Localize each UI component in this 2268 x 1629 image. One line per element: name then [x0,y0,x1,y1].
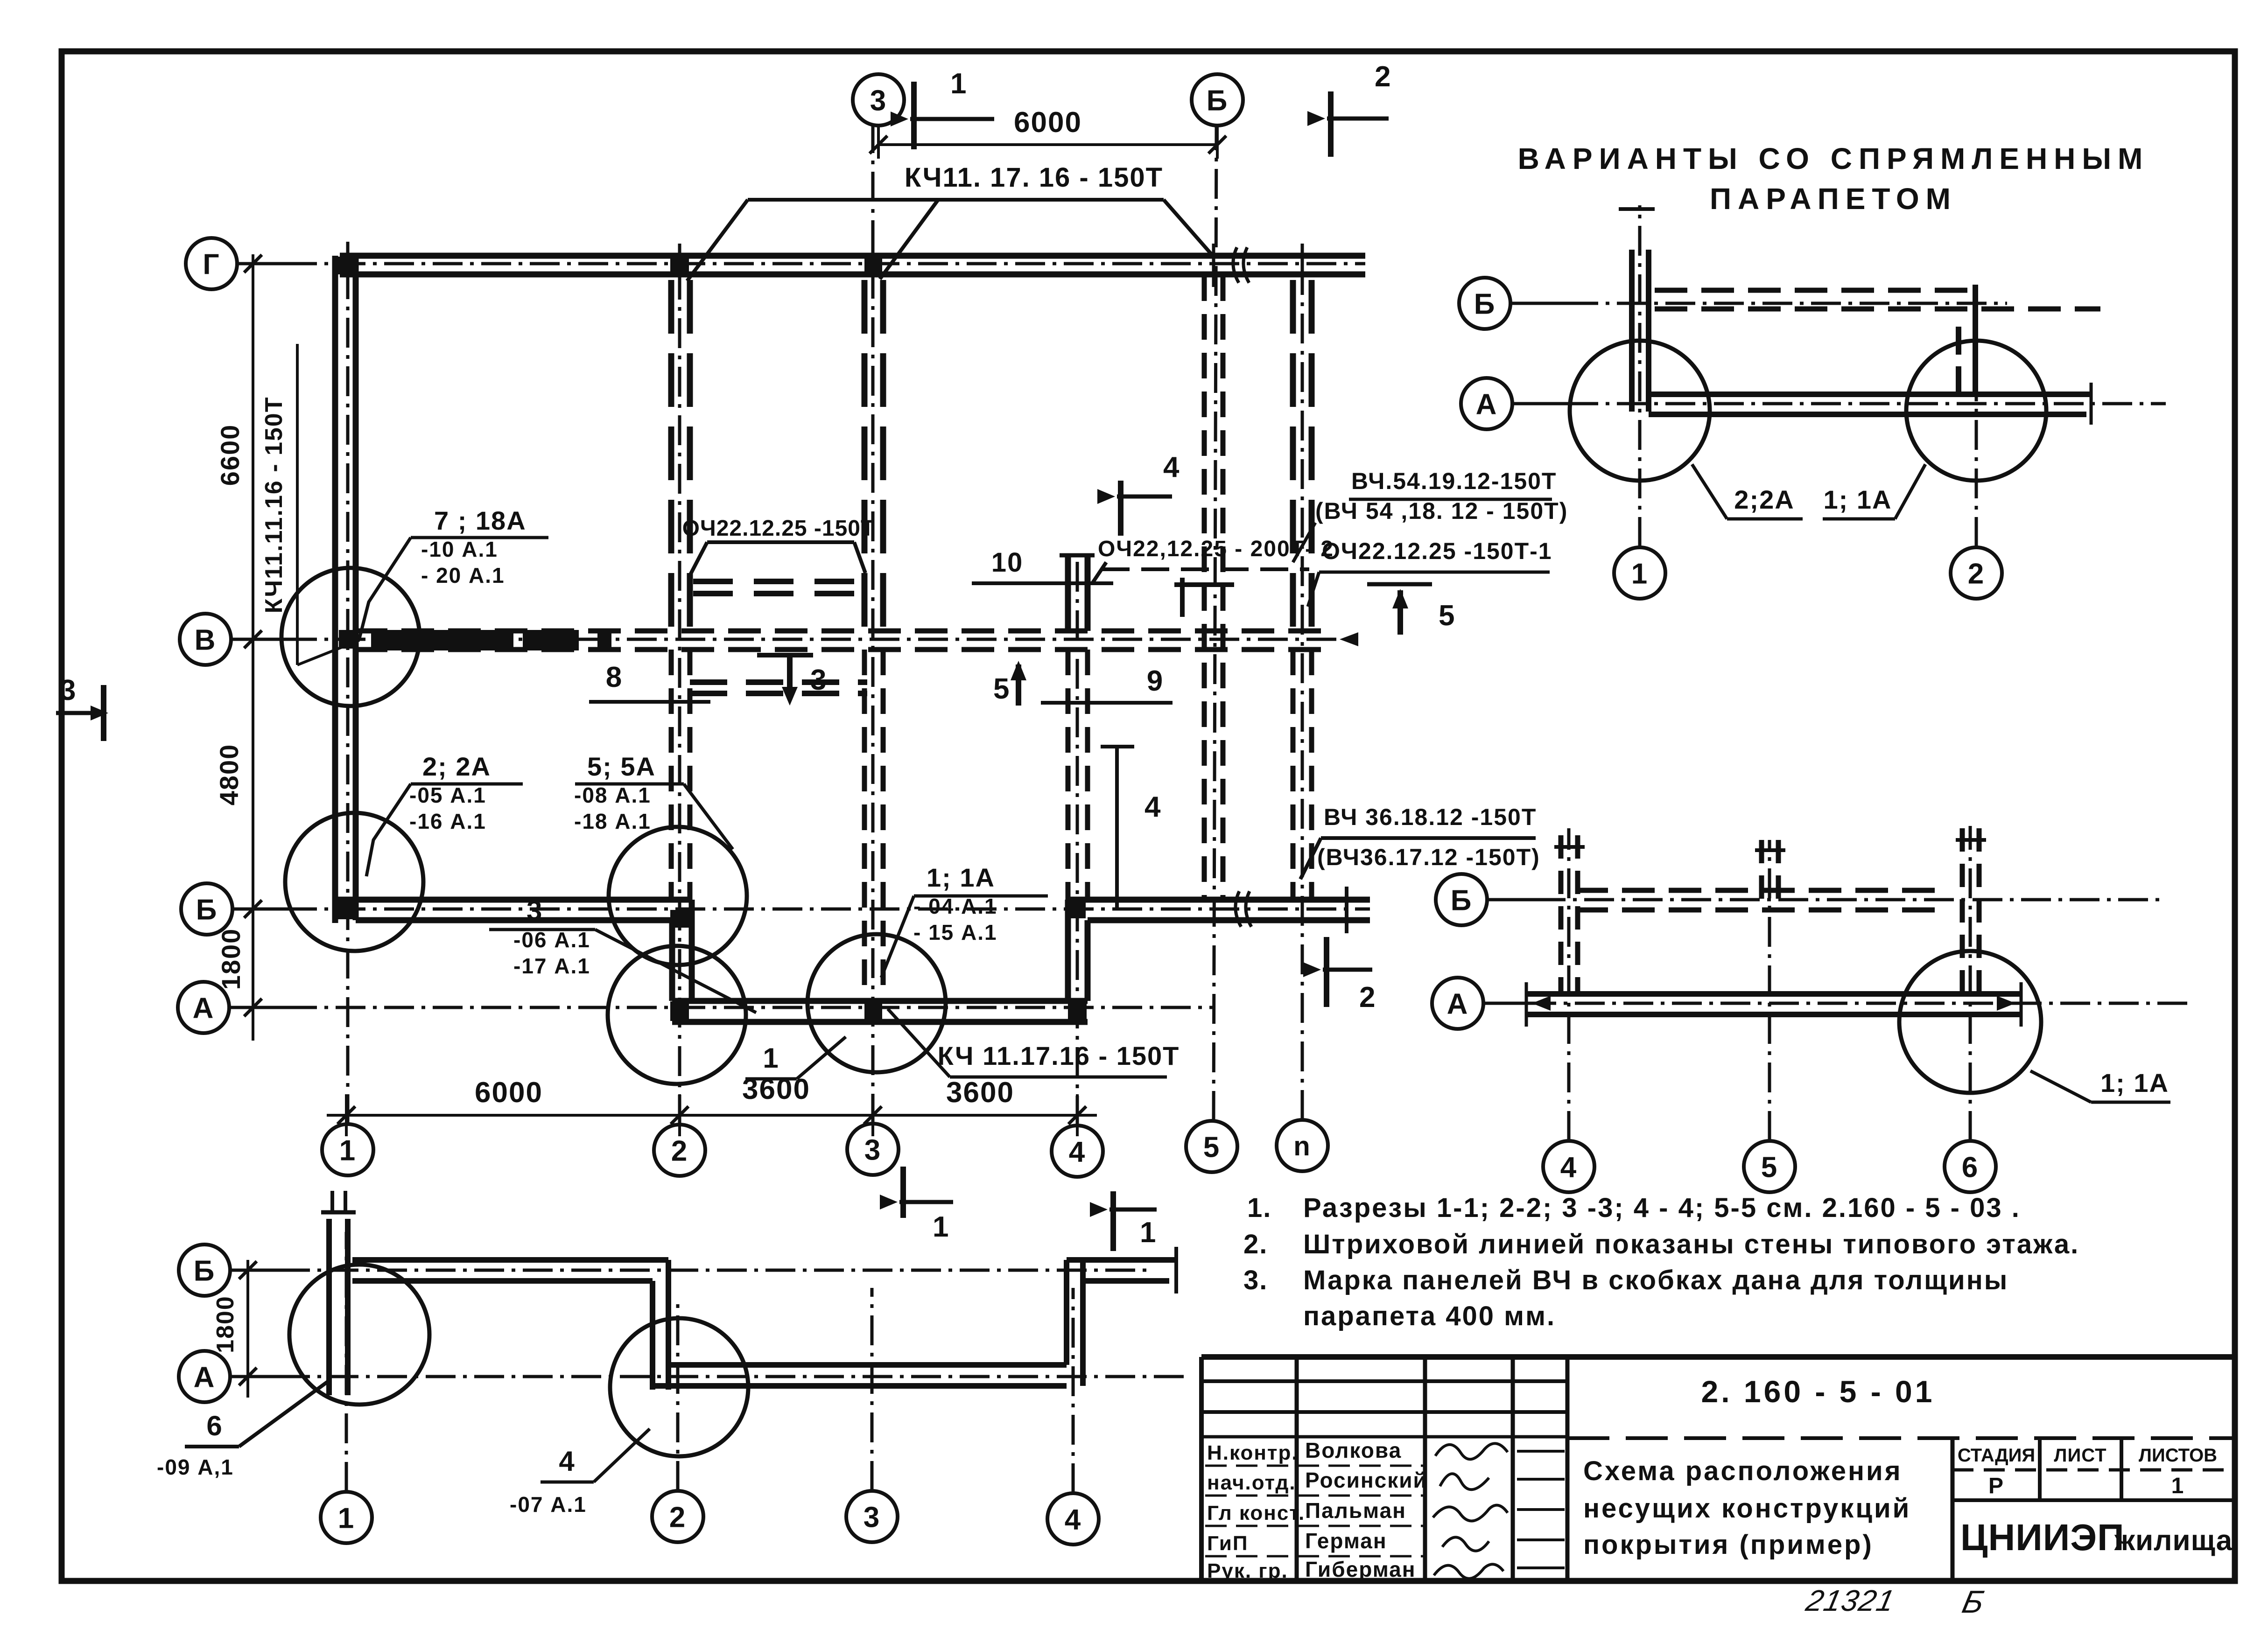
svg-text:Б: Б [1474,288,1496,320]
svg-text:2: 2 [1375,61,1391,93]
svg-text:1; 1А: 1; 1А [927,863,995,892]
svg-text:Г: Г [203,248,220,280]
svg-text:ПАРАПЕТОМ: ПАРАПЕТОМ [1710,182,1957,216]
svg-text:ЛИСТОВ: ЛИСТОВ [2139,1445,2217,1466]
svg-text:3: 3 [864,1501,880,1533]
svg-text:1; 1А: 1; 1А [2100,1068,2169,1098]
svg-text:4: 4 [1560,1151,1577,1183]
svg-text:нач.отд.: нач.отд. [1207,1471,1296,1494]
svg-text:21321: 21321 [1803,1584,1898,1617]
svg-text:парапета 400 мм.: парапета 400 мм. [1303,1301,1556,1331]
svg-text:10: 10 [991,547,1024,578]
svg-text:2: 2 [671,1135,688,1167]
svg-text:2: 2 [669,1501,686,1533]
svg-text:Б: Б [196,894,218,926]
svg-text:А: А [1476,388,1498,420]
svg-text:Гл конст.: Гл конст. [1207,1502,1305,1524]
svg-text:В: В [195,624,217,656]
svg-text:4: 4 [1145,791,1161,823]
svg-text:ЦНИИЭП: ЦНИИЭП [1960,1517,2125,1558]
svg-text:жилища: жилища [2114,1524,2233,1557]
svg-text:-05 А.1: -05 А.1 [409,783,486,807]
svg-text:3600: 3600 [946,1077,1014,1109]
svg-text:Штриховой линией показаны с: Штриховой линией показаны стены типового… [1303,1229,2079,1259]
svg-text:5: 5 [1203,1131,1220,1163]
svg-text:ВАРИАНТЫ СО СПРЯМЛЕННЫМ: ВАРИАНТЫ СО СПРЯМЛЕННЫМ [1518,142,2149,175]
svg-text:8: 8 [606,661,623,693]
svg-text:2. 160 - 5 - 01: 2. 160 - 5 - 01 [1701,1374,1935,1409]
svg-text:5: 5 [993,673,1010,705]
svg-text:Росинский: Росинский [1305,1468,1427,1492]
svg-text:3: 3 [60,674,77,706]
svg-text:4: 4 [1065,1503,1081,1536]
svg-text:-06 А.1: -06 А.1 [513,928,590,952]
svg-text:6000: 6000 [1014,106,1082,139]
svg-text:3: 3 [864,1134,881,1166]
svg-text:5: 5 [1761,1151,1778,1183]
svg-text:Б: Б [1451,884,1473,916]
svg-text:КЧ11.11.16 - 150Т: КЧ11.11.16 - 150Т [260,397,288,614]
svg-text:Пальман: Пальман [1305,1498,1406,1523]
svg-text:1; 1А: 1; 1А [1824,485,1892,514]
svg-text:5; 5А: 5; 5А [587,752,656,781]
svg-text:1800: 1800 [212,1295,239,1353]
svg-text:1800: 1800 [216,928,246,990]
svg-text:- 15 А.1: - 15 А.1 [913,920,997,944]
svg-text:- 20 А.1: - 20 А.1 [421,563,505,587]
svg-text:1: 1 [1631,558,1648,590]
svg-text:ОЧ22.12.25 -150Т: ОЧ22.12.25 -150Т [682,516,875,541]
svg-text:ОЧ22.12.25 -150Т-1: ОЧ22.12.25 -150Т-1 [1322,538,1552,564]
svg-text:Б: Б [1207,84,1229,117]
svg-text:ГиП: ГиП [1207,1532,1249,1555]
svg-text:1: 1 [1140,1217,1157,1249]
svg-text:Разрезы 1-1; 2-2; 3 -3; 4 - 4: Разрезы 1-1; 2-2; 3 -3; 4 - 4; 5-5 см. 2… [1303,1193,2021,1223]
svg-text:1: 1 [933,1211,949,1243]
svg-text:(ВЧ36.17.12 -150Т): (ВЧ36.17.12 -150Т) [1317,844,1540,870]
svg-text:Н.контр.: Н.контр. [1207,1441,1299,1464]
svg-text:1: 1 [950,68,967,100]
svg-text:Волкова: Волкова [1305,1438,1402,1462]
svg-text:А: А [193,992,215,1024]
svg-text:4: 4 [1163,451,1180,483]
svg-text:6: 6 [1962,1151,1979,1183]
svg-text:ВЧ 36.18.12 -150Т: ВЧ 36.18.12 -150Т [1324,804,1537,830]
svg-text:4: 4 [1069,1136,1086,1168]
svg-text:2: 2 [1359,981,1376,1014]
svg-text:1: 1 [339,1134,356,1167]
svg-text:5: 5 [1439,600,1455,632]
svg-text:СТАДИЯ: СТАДИЯ [1958,1445,2035,1466]
svg-text:2; 2А: 2; 2А [422,752,491,781]
svg-text:Марка панелей ВЧ в скобках: Марка панелей ВЧ в скобках дана для толщ… [1303,1265,2008,1295]
svg-text:3: 3 [870,84,887,117]
svg-text:1.: 1. [1247,1193,1271,1223]
svg-text:6000: 6000 [475,1077,543,1109]
svg-text:Схема расположения: Схема расположения [1583,1456,1903,1486]
svg-text:-09 А,1: -09 А,1 [157,1455,234,1479]
svg-text:Гиберман: Гиберман [1305,1557,1416,1581]
svg-text:4800: 4800 [214,744,244,806]
svg-text:- 04 А.1: - 04 А.1 [913,894,997,918]
svg-text:Б: Б [194,1255,216,1287]
svg-text:(ВЧ 54 ,18. 12 - 150Т): (ВЧ 54 ,18. 12 - 150Т) [1315,498,1568,524]
svg-text:3: 3 [527,895,543,926]
svg-text:КЧ 11.17.16 - 150Т: КЧ 11.17.16 - 150Т [938,1041,1180,1070]
svg-text:Герман: Герман [1305,1529,1387,1553]
svg-text:ВЧ.54.19.12-150Т: ВЧ.54.19.12-150Т [1351,468,1557,494]
svg-text:2.: 2. [1243,1229,1268,1259]
svg-text:ЛИСТ: ЛИСТ [2054,1445,2107,1466]
svg-text:1: 1 [2171,1474,2185,1498]
svg-text:А: А [194,1361,216,1393]
svg-text:-16 А.1: -16 А.1 [409,809,486,833]
svg-text:-08 А.1: -08 А.1 [574,783,651,807]
svg-text:7 ; 18А: 7 ; 18А [434,506,527,535]
svg-text:КЧ11. 17. 16 - 150Т: КЧ11. 17. 16 - 150Т [905,162,1163,193]
svg-text:6: 6 [206,1410,223,1441]
svg-text:-07 А.1: -07 А.1 [510,1492,587,1517]
svg-text:2;2А: 2;2А [1734,485,1794,514]
svg-text:4: 4 [559,1446,575,1477]
svg-text:6600: 6600 [215,424,245,486]
svg-text:Р: Р [1988,1474,2004,1498]
svg-text:несущих конструкций: несущих конструкций [1583,1493,1911,1524]
svg-text:9: 9 [1147,665,1164,697]
svg-text:-17 А.1: -17 А.1 [513,954,590,978]
svg-text:-18 А.1: -18 А.1 [574,809,651,833]
svg-text:покрытия (пример): покрытия (пример) [1583,1530,1874,1560]
svg-text:2: 2 [1968,558,1985,590]
svg-text:1: 1 [338,1502,355,1534]
svg-text:1: 1 [763,1042,779,1074]
svg-text:-10 А.1: -10 А.1 [421,537,498,561]
svg-text:А: А [1447,988,1469,1020]
svg-text:3.: 3. [1243,1265,1268,1295]
svg-text:n: n [1293,1131,1311,1161]
